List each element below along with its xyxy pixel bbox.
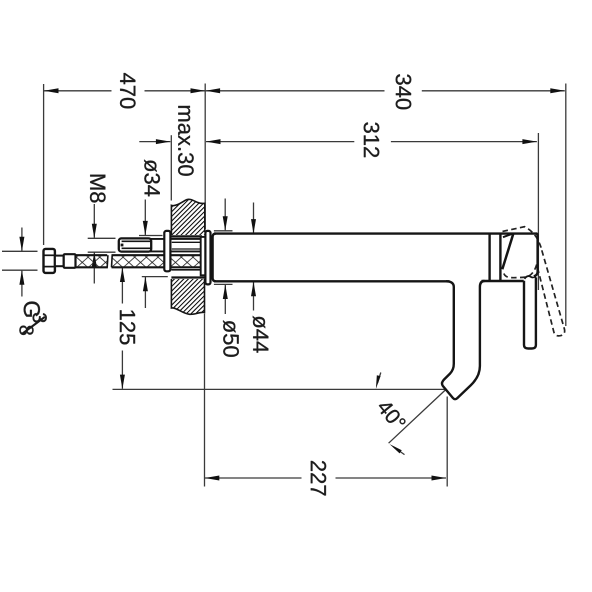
hose edges seg1 — [76, 254, 108, 256]
arrowhead 227 right — [432, 476, 447, 481]
arrowhead G3/8 top — [19, 237, 24, 252]
dimension line 312 — [206, 141, 354, 143]
arrowhead ø50 top — [223, 216, 228, 231]
spout outlet reference line — [113, 388, 447, 390]
label M8 — [90, 175, 106, 203]
ferrule — [64, 254, 76, 268]
M8 dim verticals — [93, 204, 95, 238]
body outline — [213, 234, 216, 282]
hose braid segment 1 — [76, 256, 201, 266]
wall lower outline — [171, 279, 204, 314]
label G38 — [19, 302, 46, 335]
arrowhead G3/8 bottom — [19, 270, 24, 285]
hose edges seg2 — [112, 254, 201, 256]
arrowhead 312 left — [206, 139, 221, 144]
body end cap — [488, 234, 490, 281]
wall upper block hatch — [171, 199, 204, 235]
40 deg leader diagonal — [389, 389, 446, 443]
arrowhead M8 top — [92, 224, 97, 239]
reference stubs — [88, 237, 116, 239]
extension line wall face — [204, 84, 206, 230]
arrowhead ø50 bottom — [223, 285, 228, 300]
extension line left end of hose — [43, 84, 45, 245]
arrowhead 470 left — [44, 88, 59, 93]
extension line 312 right — [537, 133, 539, 290]
ø44 dim verticals — [253, 203, 255, 234]
neck — [55, 256, 64, 267]
M8 threaded rod shank — [150, 239, 201, 252]
arrowhead 227 left — [205, 476, 220, 481]
dashed lever rotated position — [503, 227, 565, 336]
hole bottom edge / lower wall top — [171, 276, 204, 278]
arrowhead 340 left — [206, 88, 221, 93]
wall lower block hatch — [171, 279, 204, 314]
label 312 — [364, 122, 380, 157]
label 40deg — [376, 398, 406, 431]
dimension line 470 — [44, 90, 112, 92]
extension line wall left face (max.30) — [170, 135, 172, 200]
hole top edge / sleeve top — [171, 235, 202, 237]
dimension line max.30 — [139, 141, 170, 143]
label max30 — [178, 106, 194, 176]
sleeve bottom — [171, 269, 200, 271]
125 dim vertical — [121, 268, 123, 304]
hex nut — [44, 249, 55, 273]
arrowhead 40° upper — [374, 375, 381, 389]
arrowhead 312 right — [522, 139, 537, 144]
label 340 — [396, 74, 412, 109]
label 227 — [311, 461, 326, 496]
lever bar — [524, 278, 536, 349]
rod head — [119, 238, 151, 251]
arrowhead 470 right — [191, 88, 206, 93]
arrowhead M8 bottom — [92, 252, 97, 266]
label 470 — [120, 73, 136, 108]
arrowhead ø34 top — [143, 221, 148, 236]
label o34 — [144, 160, 160, 197]
wall upper outline — [171, 199, 204, 235]
arrowhead 340 right — [550, 88, 565, 93]
label 125 — [120, 310, 136, 344]
arrowhead ø44 top — [251, 219, 256, 234]
dimension line 340 — [206, 90, 385, 92]
extension line below wall (227 left) — [204, 314, 206, 487]
arrowhead ø34 bottom — [143, 277, 148, 292]
40 deg arrow tails — [378, 373, 381, 384]
label o50 — [223, 320, 239, 357]
extension line right end (340) — [565, 84, 567, 327]
arrowhead max.30 left outside — [156, 139, 171, 144]
arrowhead 125 bottom — [120, 375, 125, 390]
ø34 dim verticals — [144, 200, 146, 236]
arrowhead ø44 bottom — [251, 282, 256, 297]
solid cartridge/handle — [502, 233, 537, 278]
label o44 — [253, 316, 269, 353]
bottom edge under handle — [482, 280, 524, 282]
G3/8 dim verticals — [21, 228, 23, 251]
arrowhead 125 top — [120, 268, 125, 283]
ø50 dim verticals — [224, 199, 226, 231]
arrowhead 40° lower — [389, 443, 402, 454]
dimension line 227 — [205, 477, 302, 479]
extension line 227 right — [446, 397, 448, 487]
